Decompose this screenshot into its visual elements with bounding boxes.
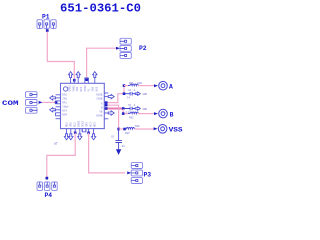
svg-text:600: 600	[135, 125, 140, 128]
U1 inside pin labels top	[69, 85, 99, 92]
svg-text:NO4B: NO4B	[96, 114, 103, 117]
svg-text:FB1: FB1	[129, 82, 134, 85]
svg-text:COM: COM	[2, 100, 19, 107]
net arrow left pin L2	[50, 96, 56, 100]
connector COM	[26, 92, 38, 114]
net arrow down pin bot-2	[69, 134, 73, 140]
svg-text:C4 .1: C4 .1	[128, 89, 136, 92]
svg-text:B: B	[170, 112, 174, 119]
junction A-row	[105, 101, 108, 104]
net arrow down pin bot-8	[91, 134, 95, 140]
svg-text:FB2: FB2	[129, 117, 134, 120]
ferrite bead FB1	[128, 84, 138, 86]
svg-text:VDD1: VDD1	[72, 85, 75, 92]
svg-text:NO4: NO4	[62, 113, 67, 116]
net arrow left pin L6	[50, 108, 56, 112]
net arrow right pin R6	[108, 111, 114, 115]
junction VSS node	[117, 128, 120, 131]
U1 inside pin labels right	[96, 93, 103, 117]
U1 inside pin labels bottom	[66, 120, 97, 127]
junction at chip top pin	[73, 79, 76, 82]
arrow into P2 pin 2	[116, 47, 120, 50]
svg-text:VL: VL	[87, 88, 90, 92]
ferrite bead FB3	[125, 127, 135, 129]
terminal B circle	[159, 109, 168, 118]
svg-text:INde: INde	[62, 104, 69, 108]
net arrow right pin R2	[108, 94, 114, 98]
arrow into VSS	[154, 127, 158, 130]
wire P1 to chip top pin	[47, 32, 74, 80]
net arrow right C5	[135, 107, 140, 111]
svg-text:C6: C6	[111, 136, 115, 139]
U1 top pin stubs	[71, 78, 95, 84]
wire VSS node to FB3	[119, 128, 124, 130]
wire U1 right A-row riser	[106, 86, 124, 103]
bracket joining bottom pins 5-6	[82, 129, 86, 132]
junction bottom wire P3	[87, 132, 90, 135]
wire to FB2	[123, 109, 128, 114]
svg-text:P2: P2	[139, 45, 147, 52]
junction on bracket	[85, 78, 88, 81]
svg-text:IN1: IN1	[62, 97, 67, 100]
U1 left pin stubs	[55, 95, 60, 119]
svg-text:GND: GND	[143, 108, 148, 111]
wire COM to chip left	[42, 101, 56, 103]
svg-text:NC3: NC3	[90, 122, 93, 127]
wire U1 VSS row dropper	[106, 105, 119, 129]
U1 pin-1 indicator circle	[63, 87, 67, 91]
wire FB2 to B	[138, 113, 154, 115]
arrow into P3 pin 2	[127, 171, 131, 174]
svg-text:GND2: GND2	[69, 85, 72, 92]
wire FB1 to A	[138, 85, 154, 87]
svg-text:VEE1: VEE1	[82, 120, 85, 127]
svg-text:A: A	[169, 84, 173, 91]
P3 pin marks	[131, 165, 138, 182]
svg-text:NC5: NC5	[80, 86, 83, 91]
wire node A horizontal	[124, 85, 128, 87]
svg-text:B: B	[101, 106, 103, 109]
svg-text:CM3: CM3	[86, 122, 89, 127]
junction above P4	[46, 177, 49, 180]
COM pin marks	[30, 94, 37, 112]
wire bottom to P3	[89, 133, 125, 173]
ground arrow	[116, 149, 121, 155]
svg-text:NC4: NC4	[62, 109, 67, 112]
junction VSS row left	[105, 104, 108, 107]
junction thick row right	[122, 107, 125, 110]
svg-text:GND3: GND3	[78, 120, 81, 127]
U1 right pin stubs	[104, 93, 108, 119]
P1 pin marks	[39, 23, 55, 29]
U1 bottom pin stubs	[67, 129, 94, 134]
IC U1 body	[61, 83, 105, 128]
svg-text:A: A	[101, 102, 103, 105]
arrow into B	[154, 112, 158, 115]
junction FB3 left	[123, 128, 126, 131]
net arrow up pin top-3	[76, 72, 80, 78]
svg-text:.01: .01	[120, 145, 125, 148]
svg-text:IN1B: IN1B	[96, 97, 103, 100]
junction thick row left	[105, 107, 108, 110]
svg-text:651-0361-C0: 651-0361-C0	[60, 2, 141, 16]
junction A-row top	[123, 84, 126, 87]
connector P2	[120, 38, 131, 58]
svg-text:RF1: RF1	[62, 101, 67, 104]
svg-text:IN3: IN3	[92, 86, 95, 91]
svg-text:P1: P1	[42, 14, 50, 21]
net arrow up pin top-1	[68, 72, 72, 78]
svg-text:NC2: NC2	[74, 122, 77, 127]
bracket joining top pins 4-5	[85, 78, 88, 81]
wire FB3 to VSS	[135, 128, 154, 130]
junction FB2 row	[122, 112, 125, 115]
svg-text:NO1: NO1	[62, 93, 67, 96]
svg-text:NO3: NO3	[94, 122, 97, 127]
P2 pin marks	[120, 40, 127, 56]
svg-text:C4: C4	[127, 96, 131, 99]
connector P3	[131, 163, 142, 184]
svg-text:VB: VB	[99, 111, 103, 114]
svg-text:GND: GND	[143, 93, 148, 96]
connector P4	[37, 182, 57, 191]
svg-text:C5 .1: C5 .1	[128, 104, 136, 107]
wire bottom to P4	[47, 133, 75, 177]
svg-text:FB3: FB3	[125, 132, 130, 135]
ferrite bead FB2	[128, 112, 138, 114]
P4 pin marks	[39, 182, 56, 187]
junction at P1 pin 2	[46, 29, 49, 32]
net arrow up pin top-6	[93, 72, 97, 78]
capacitor C5	[124, 107, 136, 111]
svg-text:P3: P3	[144, 171, 152, 178]
svg-text:P4: P4	[45, 192, 53, 199]
net arrow down pin bot-4	[78, 134, 82, 140]
svg-text:IN2: IN2	[76, 86, 79, 91]
wire P2 to chip top	[87, 48, 116, 77]
bracket joining left pins 7-8	[54, 113, 56, 116]
svg-text:VSS: VSS	[169, 127, 183, 134]
svg-text:600: 600	[138, 82, 143, 85]
junction A-cap branch	[123, 92, 126, 95]
net arrow right C4	[135, 92, 140, 96]
arrow out of COM pin 2	[39, 101, 43, 104]
junction at chip left bracket	[55, 101, 58, 104]
terminal VSS circle	[158, 125, 167, 134]
net arrow down pin bot-1	[64, 134, 68, 140]
arrow into A	[154, 84, 158, 87]
svg-text:CM2: CM2	[70, 122, 73, 127]
svg-text:NO1B: NO1B	[96, 93, 103, 96]
svg-text:NO2: NO2	[66, 122, 69, 127]
junction bottom wire P4	[74, 132, 77, 135]
terminal A circle	[159, 81, 168, 90]
capacitor C6 to ground	[115, 130, 122, 150]
U1 inside pin labels left	[62, 93, 69, 116]
bracket joining left pins 3-4	[54, 101, 56, 104]
svg-text:u†: u†	[54, 142, 58, 147]
svg-text:NC6: NC6	[95, 86, 98, 91]
connector P1	[37, 20, 56, 29]
capacitor C4	[125, 92, 136, 96]
wire U1 thick row	[106, 107, 123, 109]
svg-text:VSS2: VSS2	[84, 85, 87, 92]
